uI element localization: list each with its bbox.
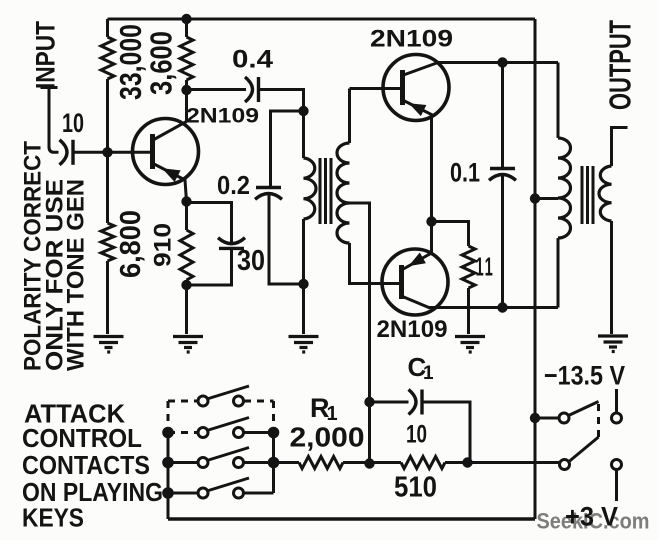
wire to switch contact: [535, 417, 559, 420]
ground (T1 primary): [289, 337, 319, 353]
wire R6,800 to ground: [106, 261, 109, 334]
switch gang link (dashed): [597, 404, 600, 437]
transformer T2 primary winding: [558, 138, 571, 238]
svg-text:10: 10: [406, 421, 427, 449]
svg-text:WITH TONE GEN: WITH TONE GEN: [63, 179, 90, 371]
resistor R1 2,000: [299, 457, 343, 469]
wire top supply rail: [108, 18, 536, 21]
wire base Q1: [112, 151, 152, 154]
ground (R 11): [455, 337, 485, 353]
capacitor C1: [409, 390, 417, 415]
wire R910 bottom: [185, 280, 188, 285]
node emitter Q1: [181, 196, 191, 206]
svg-text:10: 10: [62, 108, 84, 138]
svg-text:2N109: 2N109: [377, 316, 448, 343]
svg-text:510: 510: [394, 472, 437, 504]
transformer T2 core: [582, 166, 593, 224]
switch contact -13.5V: [612, 413, 622, 423]
svg-text:6,800: 6,800: [115, 210, 147, 278]
svg-text:0.4: 0.4: [232, 46, 273, 74]
switch supply pole 1: [559, 413, 569, 423]
input terminal tick: [41, 86, 58, 89]
collector line Q3: [403, 297, 431, 309]
svg-text:0.2: 0.2: [217, 170, 250, 200]
wire key rail to R1: [274, 461, 300, 464]
svg-text:−13.5 V: −13.5 V: [544, 361, 625, 391]
capacitor 30: [219, 247, 244, 250]
wire to -13.5V terminal: [615, 389, 618, 413]
node cap 0.1 top: [497, 57, 507, 67]
ground (input stage): [94, 337, 124, 353]
wire right supply rail: [534, 19, 537, 519]
node R1 / 510 / tap: [364, 458, 374, 468]
wire node to R 510: [370, 461, 402, 464]
capacitor 0.1: [490, 167, 515, 170]
switch contact +3V: [612, 460, 622, 470]
node emitter network bottom: [181, 280, 191, 290]
svg-text:CONTROL: CONTROL: [22, 423, 142, 453]
wire T2 secondary to ground: [610, 221, 613, 334]
wire emitter node to R 910: [185, 202, 188, 231]
ground (emitter network): [173, 337, 203, 353]
wire output terminal: [612, 128, 628, 167]
wire R3,600 to collector node: [185, 80, 188, 122]
node supply rail / switch: [530, 413, 540, 423]
wire right key rail: [272, 428, 275, 493]
wire right key rail (dashed): [272, 401, 275, 428]
wire rail to R 33,000: [106, 19, 109, 37]
wire collector Q3 to T2 primary bottom: [428, 306, 558, 309]
resistor 910: [180, 230, 193, 280]
svg-text:3,600: 3,600: [144, 31, 179, 95]
resistor 33,000: [101, 37, 114, 79]
wire collector to cap 0.4: [187, 88, 247, 91]
wire R 11 to ground: [467, 288, 470, 334]
node key row 3 left: [162, 457, 174, 469]
wire up to T2 primary bottom: [557, 238, 560, 308]
wire cap 0.1 to bottom wire: [501, 175, 504, 308]
node 510 / C1: [462, 457, 472, 467]
svg-text:INPUT: INPUT: [31, 21, 61, 89]
wire bottom supply rail: [168, 517, 535, 521]
switch key row 1: [168, 400, 198, 403]
switch key row 3: [168, 461, 198, 464]
wire to cap 0.1: [501, 63, 504, 170]
switch blade top: [569, 402, 599, 416]
svg-text:1: 1: [423, 363, 434, 384]
node cap 0.1 bottom: [497, 302, 507, 312]
capacitor 0.2: [256, 186, 281, 189]
capacitor 0.4: [245, 77, 253, 102]
svg-text:30: 30: [237, 245, 265, 277]
ground (output): [598, 336, 628, 352]
wire cap 30 to bottom node: [187, 249, 232, 286]
wire T2 center tap: [535, 197, 558, 200]
wire 510 to switch contact: [445, 461, 560, 464]
node center tap / supply rail: [530, 193, 540, 203]
svg-text:KEYS: KEYS: [22, 503, 84, 533]
collector line Q1: [153, 122, 187, 141]
resistor 6,800: [101, 223, 114, 261]
wire cap 0.2 to ground node: [269, 195, 304, 284]
svg-text:11: 11: [476, 252, 495, 282]
wire to +3V terminal: [615, 470, 618, 502]
transformer T1 secondary winding: [337, 143, 350, 243]
svg-text:OUTPUT: OUTPUT: [603, 20, 638, 110]
wire base node to R 6,800: [106, 152, 109, 223]
wire C1 to right node: [422, 402, 470, 463]
wire emitter to cap 30: [187, 203, 232, 244]
svg-text:CONTACTS: CONTACTS: [22, 450, 150, 480]
wire base Q2: [350, 87, 403, 90]
capacitor 10 (input coupling): [60, 140, 68, 165]
wire emitter bus to R 11: [432, 222, 469, 247]
transformer T1 primary winding: [304, 158, 317, 219]
transformer T2 secondary winding: [599, 166, 612, 221]
wire to ground: [302, 284, 305, 334]
transformer T1 core: [320, 158, 331, 224]
collector line Q2: [404, 63, 439, 76]
wire T1 primary top: [302, 111, 305, 158]
wire down to T2 primary top: [557, 63, 560, 139]
svg-text:2N109: 2N109: [186, 105, 259, 128]
wire R1 to node: [343, 461, 370, 464]
wire input lead: [49, 88, 59, 153]
resistor 510: [401, 457, 445, 469]
transistor Q1 2N109: [112, 119, 199, 202]
wire left key rail: [167, 428, 170, 519]
svg-text:0.1: 0.1: [450, 158, 480, 188]
node key row 2 left: [162, 427, 174, 439]
wire rail to R 3,600: [185, 19, 188, 37]
node key row 2 right: [268, 427, 280, 439]
emitter line Q3: [403, 222, 432, 270]
svg-text:+3 V: +3 V: [565, 502, 618, 532]
node base Q1: [102, 147, 112, 157]
wire cap to base node: [73, 151, 108, 154]
node emitters / R 11: [426, 216, 436, 226]
emitter line Q2: [404, 101, 432, 222]
node key row 4 left: [162, 487, 174, 499]
wire R33,000 to base node: [106, 79, 109, 152]
node C1 left: [364, 397, 374, 407]
node top rail / R 3,600: [181, 14, 191, 24]
wire T1 primary bottom: [302, 219, 305, 284]
wire cap 0.4 to transformer node: [260, 90, 304, 112]
wire node to C1: [370, 401, 409, 404]
svg-text:2,000: 2,000: [290, 422, 365, 453]
wire left key rail (dashed): [167, 401, 170, 428]
wire node to cap 0.2: [271, 111, 304, 188]
emitter line Q1: [153, 164, 187, 202]
wire T1 secondary top: [348, 89, 351, 144]
transistor Q3 2N109: [382, 222, 448, 316]
switch key row 4: [168, 492, 198, 495]
wire T1 center tap down: [350, 203, 370, 464]
transistor Q2 2N109: [383, 55, 449, 222]
node T1 primary / cap 0.2 / ground: [298, 279, 308, 289]
node key row 3 right: [268, 457, 280, 469]
wire collector Q2 to T2 primary: [438, 61, 558, 64]
svg-text:2N109: 2N109: [370, 26, 453, 53]
node transformer T1 primary top: [298, 106, 308, 116]
node collector Q1: [181, 85, 191, 95]
wire T1 secondary bottom to base Q3: [350, 243, 402, 284]
svg-text:910: 910: [150, 223, 177, 267]
switch key row 2: [168, 431, 198, 434]
resistor 11: [462, 246, 475, 288]
wire to ground: [185, 285, 188, 334]
resistor 3,600: [180, 37, 193, 80]
switch blade bottom: [569, 437, 599, 462]
